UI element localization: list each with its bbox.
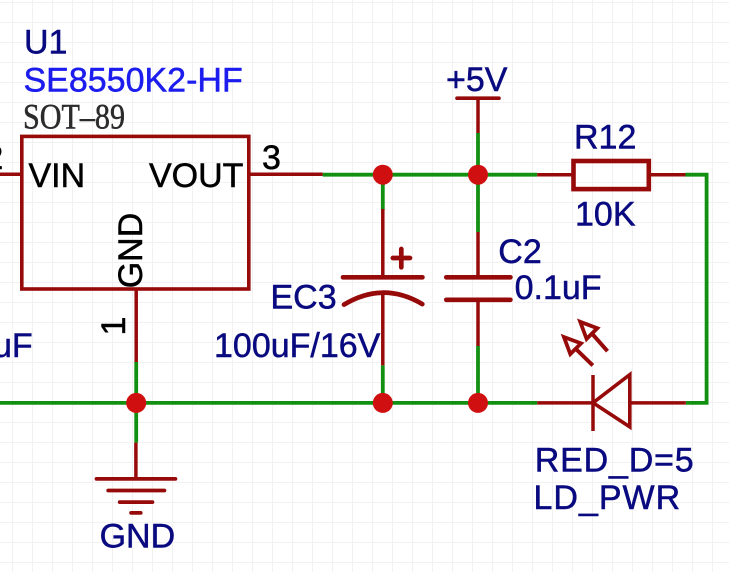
- wire right rail green: [686, 175, 707, 403]
- svg-text:SOT–89: SOT–89: [23, 97, 125, 137]
- LED arrow lower: [576, 349, 593, 365]
- svg-text:100uF/16V: 100uF/16V: [214, 327, 381, 365]
- svg-text:RED_D=5: RED_D=5: [535, 441, 695, 479]
- capacitor C2 lower lead: [476, 300, 480, 346]
- power +5V bar: [457, 96, 499, 100]
- pin 1 GND wire: [134, 289, 138, 362]
- svg-text:1: 1: [95, 317, 133, 336]
- resistor R12 left lead: [537, 173, 573, 177]
- svg-text:uF: uF: [0, 327, 33, 365]
- svg-text:GND: GND: [112, 213, 150, 289]
- svg-text:LD_PWR: LD_PWR: [534, 479, 682, 517]
- junction dot C2 bottom: [468, 393, 488, 413]
- ground bar 1: [97, 477, 176, 481]
- pin 3 VOUT wire: [249, 173, 323, 177]
- wire EC3 upper green: [381, 175, 385, 210]
- svg-text:EC3: EC3: [271, 278, 337, 316]
- resistor R12 right lead: [649, 173, 686, 177]
- wire C2 lower green: [476, 346, 480, 403]
- LED right lead: [630, 401, 686, 405]
- svg-text:10K: 10K: [575, 196, 636, 234]
- wire U1 gnd pin green: [134, 362, 138, 403]
- svg-text:C2: C2: [498, 233, 541, 271]
- wire VOUT net horizontal: [323, 173, 538, 177]
- wire +5V stem green: [476, 133, 480, 175]
- ground bar 4: [131, 511, 141, 515]
- junction dot GND: [126, 393, 146, 413]
- capacitor EC3 top plate: [343, 275, 422, 280]
- pin 2 VIN wire: [0, 173, 22, 177]
- svg-text:2: 2: [0, 139, 3, 177]
- ground bar 3: [120, 500, 153, 504]
- LED arrow upper: [592, 334, 607, 351]
- svg-text:R12: R12: [574, 119, 636, 157]
- capacitor EC3 plus sign: [393, 249, 410, 267]
- svg-text:SE8550K2-HF: SE8550K2-HF: [24, 61, 243, 99]
- regulator U1 body SE8550K2-HF: [22, 136, 249, 289]
- LED triangle: [593, 375, 630, 427]
- resistor R12 body: [574, 161, 649, 189]
- svg-text:+5V: +5V: [446, 61, 508, 99]
- power +5V stem: [476, 98, 480, 133]
- junction dot EC3 top: [373, 165, 393, 185]
- svg-text:VIN: VIN: [29, 157, 86, 195]
- wire GND net horizontal: [0, 401, 537, 405]
- junction dot C2 top: [468, 165, 488, 185]
- capacitor C2 upper lead: [476, 232, 480, 277]
- svg-text:0.1uF: 0.1uF: [515, 269, 602, 307]
- capacitor EC3 bottom arc plate: [344, 293, 422, 305]
- wire EC3 lower green: [381, 365, 385, 403]
- LED cathode bar: [591, 375, 595, 431]
- wire gnd symbol green: [134, 403, 138, 443]
- svg-text:3: 3: [262, 139, 281, 177]
- svg-text:U1: U1: [24, 24, 67, 62]
- capacitor C2 bottom plate: [446, 297, 510, 302]
- capacitor C2 top plate: [446, 275, 510, 280]
- ground symbol stem: [134, 443, 138, 479]
- svg-text:VOUT: VOUT: [149, 157, 243, 195]
- wire C2 upper green: [476, 175, 480, 232]
- capacitor EC3 upper lead: [381, 209, 385, 277]
- junction dot EC3 bottom: [373, 393, 393, 413]
- svg-text:GND: GND: [100, 518, 176, 556]
- ground bar 2: [108, 489, 164, 493]
- LED left lead: [537, 401, 593, 405]
- capacitor EC3 lower lead: [381, 293, 385, 365]
